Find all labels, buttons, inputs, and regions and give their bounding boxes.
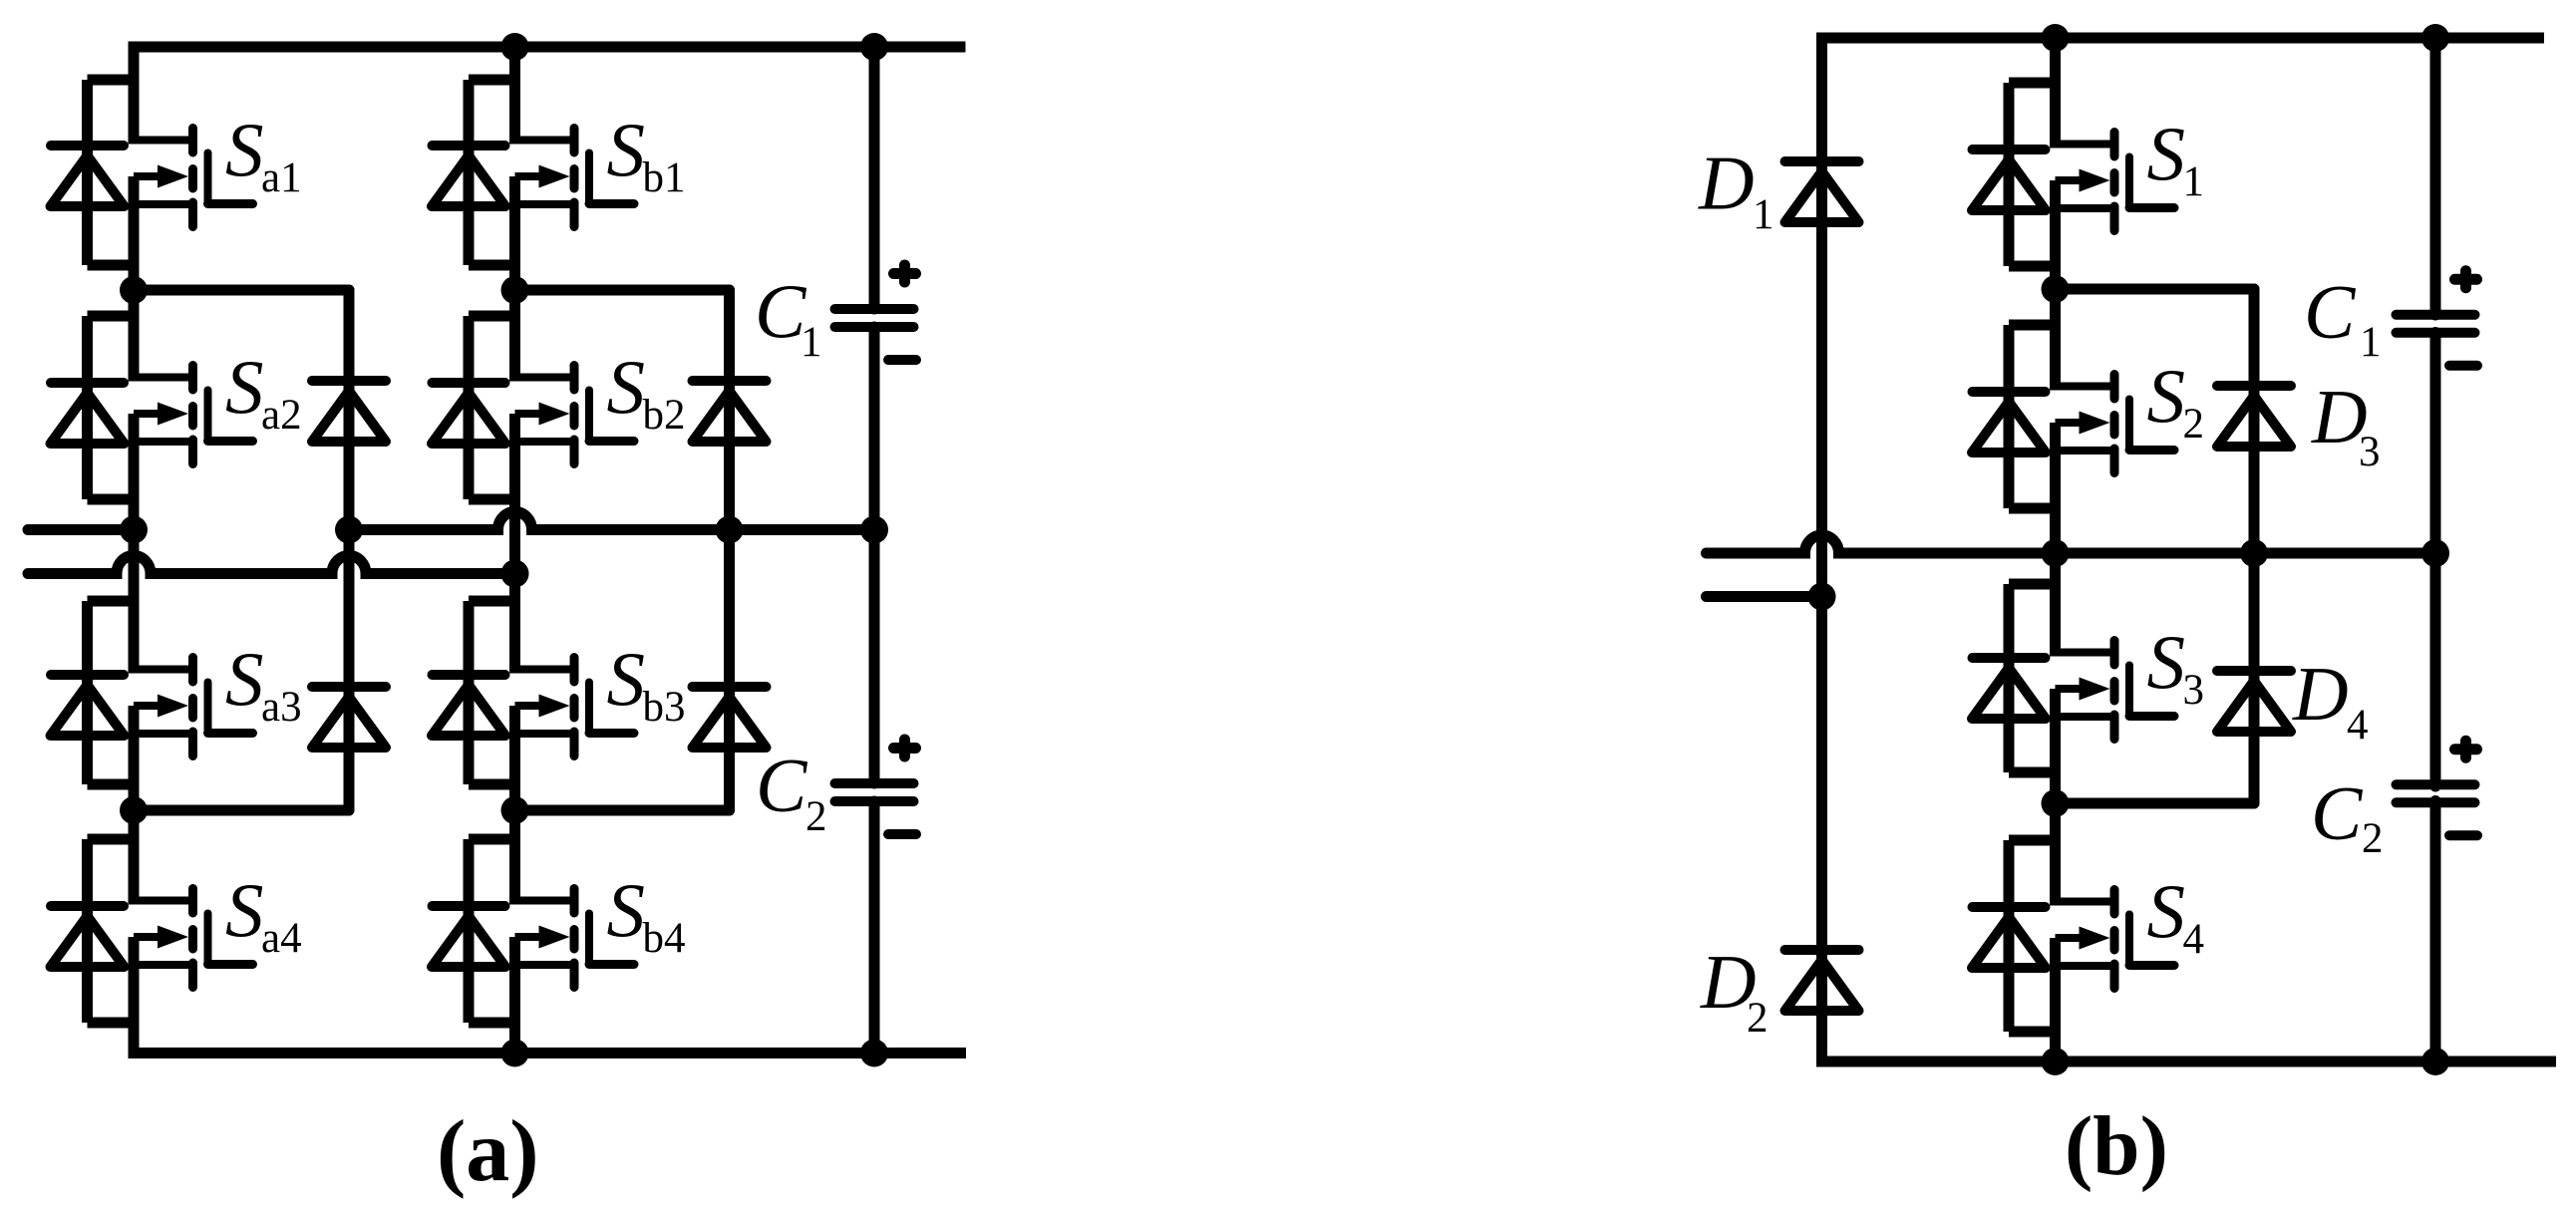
wire: positive DC bus (top rail, circuit a) [129, 42, 966, 53]
junction node: Sa3-Sa4 junction [120, 796, 148, 824]
svg-text:2: 2 [1747, 995, 1769, 1042]
transistor Sb4 (MOSFET with antiparallel body diode) [432, 839, 634, 1023]
svg-text:S: S [607, 344, 646, 430]
wire: clamp diode branch (b) [2249, 289, 2260, 803]
svg-text:S: S [607, 867, 646, 953]
junction node: bottom rail / capacitor leg (a) [860, 1040, 888, 1067]
capacitor C2 [835, 783, 914, 801]
wire: C2 bottom plate to DC bus [869, 801, 880, 1054]
svg-text:2: 2 [2362, 815, 2384, 862]
wire: neutral rail to capacitor midpoint (hops over leg b) [349, 512, 874, 530]
svg-text:2: 2 [2183, 401, 2205, 448]
diode D3 [2217, 386, 2291, 447]
polarity plus sign of C2 [894, 740, 916, 756]
transistor Sa1 (MOSFET with antiparallel body diode) [51, 80, 253, 265]
wire: input terminal 1 / neutral rail (b), hops over diode branch [1707, 535, 2436, 553]
svg-text:a2: a2 [261, 392, 302, 439]
transistor Sb3 (MOSFET with antiparallel body diode) [432, 601, 634, 784]
wire: drain lead of S2 [2050, 289, 2061, 391]
wire: source lead of S2 [2050, 423, 2061, 553]
transistor S4 (MOSFET with antiparallel body diode) [1972, 840, 2174, 1032]
wire: source lead of S1 [2050, 180, 2061, 289]
junction node: clamp branch a / neutral rail [335, 516, 363, 544]
transistor Sa3 (MOSFET with antiparallel body diode) [51, 601, 253, 784]
wire: drain lead of Sa1 [129, 47, 140, 145]
diode D2 [1785, 950, 1859, 1011]
svg-text:4: 4 [2183, 916, 2205, 963]
wire: source lead of Sb2 [509, 414, 520, 574]
capacitor C2 [2397, 784, 2475, 802]
svg-text:a1: a1 [261, 154, 302, 201]
svg-text:D: D [2292, 651, 2349, 737]
diode D4 [2217, 671, 2291, 732]
svg-text:D: D [1698, 141, 1755, 226]
transistor S3 (MOSFET with antiparallel body diode) [1972, 584, 2174, 772]
polarity plus sign of C1 [894, 265, 916, 282]
svg-text:b3: b3 [643, 684, 686, 731]
wire: node between S1 and S2 to clamp diode branch (b) [2056, 284, 2255, 295]
svg-text:1: 1 [2360, 319, 2382, 366]
svg-text:(a): (a) [437, 1103, 539, 1200]
wire: input diode branch (D1/D2 vertical) [1816, 38, 1827, 1061]
wire: source lead of S3 [2050, 689, 2061, 803]
junction node: S3-S4 junction [2042, 789, 2070, 817]
junction node: top rail / switch leg (b) [2042, 24, 2070, 52]
svg-text:S: S [607, 107, 646, 192]
svg-text:3: 3 [2359, 429, 2381, 475]
svg-text:a4: a4 [261, 915, 302, 962]
svg-text:2: 2 [805, 793, 827, 840]
wire: drain lead of Sa3 [129, 530, 140, 674]
junction node: top rail / capacitor leg (a) [860, 33, 888, 61]
wire: C1 bottom plate to C2 top plate [869, 327, 880, 783]
junction node: leg b midpoint / input terminal 2 [501, 560, 529, 588]
svg-text:S: S [225, 867, 264, 953]
svg-text:1: 1 [1753, 191, 1774, 238]
transistor Sa2 (MOSFET with antiparallel body diode) [51, 316, 253, 499]
capacitor C1 [2397, 315, 2475, 333]
wire: source lead of Sb4 [509, 937, 520, 1054]
svg-text:C: C [756, 743, 808, 828]
polarity plus sign of C2 [2455, 741, 2477, 757]
wire: drain lead of Sa4 [129, 810, 140, 905]
diode clamp diode upper leg b [693, 381, 767, 442]
wire: drain lead of Sa2 [129, 290, 140, 382]
junction node: clamp branch b / neutral rail [716, 516, 744, 544]
wire: node between Sa3 and Sa4 to clamp diode branch [134, 805, 349, 816]
junction node: capacitor midpoint (a) [860, 516, 888, 544]
svg-text:b4: b4 [643, 915, 686, 962]
polarity minus sign of C1 [888, 355, 916, 365]
wire: clamp diode branch of leg a [344, 290, 355, 810]
capacitor C1 [835, 309, 914, 327]
junction node: input terminal 2 / diode branch [1808, 583, 1836, 611]
polarity minus sign of C2 [2449, 830, 2477, 840]
diode clamp diode upper leg a [312, 381, 386, 442]
wire: drain lead of S3 [2050, 553, 2061, 657]
svg-text:S: S [225, 344, 264, 430]
wire: node between S3 and S4 to clamp diode branch (b) [2056, 798, 2255, 809]
wire: drain lead of Sb4 [509, 810, 520, 905]
junction node: top rail / leg b (a) [501, 33, 529, 61]
wire: source lead of Sa3 [129, 706, 140, 810]
wire: source lead of Sb3 [509, 706, 520, 810]
svg-text:S: S [2147, 353, 2186, 439]
polarity plus sign of C1 [2455, 271, 2477, 288]
wire: source lead of Sa2 [129, 414, 140, 530]
svg-text:S: S [2147, 619, 2186, 705]
transistor S1 (MOSFET with antiparallel body diode) [1972, 83, 2174, 266]
wire: source lead of Sa1 [129, 176, 140, 290]
wire: input terminal 2 to midpoint of leg b (hops over leg a and clamp branch) [28, 556, 515, 574]
wire: source lead of Sb1 [509, 176, 520, 290]
wire: C1 bottom plate to C2 top plate (b) [2430, 333, 2441, 787]
transistor Sb2 (MOSFET with antiparallel body diode) [432, 316, 634, 499]
wire: negative DC bus (bottom rail, circuit b) [1816, 1056, 2556, 1067]
transistor Sb1 (MOSFET with antiparallel body diode) [432, 80, 634, 265]
svg-text:(b): (b) [2065, 1099, 2168, 1193]
wire: node between Sa1 and Sa2 to clamp diode branch [134, 285, 349, 296]
svg-text:b2: b2 [643, 392, 686, 439]
transistor Sa4 (MOSFET with antiparallel body diode) [51, 839, 253, 1023]
wire: drain lead of S4 [2050, 803, 2061, 906]
wire: source lead of Sa4 [129, 937, 140, 1054]
wire: node between Sb3 and Sb4 to clamp diode branch [515, 805, 730, 816]
wire: node between Sb1 and Sb2 to clamp diode branch [515, 285, 730, 296]
junction node: Sb1-Sb2 junction [501, 276, 529, 304]
svg-text:S: S [2147, 868, 2186, 954]
junction node: Sb3-Sb4 junction [501, 796, 529, 824]
junction node: bottom rail / capacitor leg (b) [2421, 1048, 2449, 1075]
junction node: top rail / capacitor leg (b) [2421, 24, 2449, 52]
junction node: S1-S2 junction [2042, 275, 2070, 303]
svg-text:S: S [2147, 111, 2186, 196]
wire: input terminal 2 to diode branch (b) [1707, 591, 1822, 602]
svg-text:3: 3 [2183, 667, 2205, 714]
svg-text:S: S [225, 636, 264, 722]
svg-text:C: C [2311, 770, 2364, 856]
junction node: bottom rail / switch leg (b) [2042, 1048, 2070, 1075]
svg-text:1: 1 [2183, 158, 2205, 205]
junction node: bottom rail / leg b (a) [501, 1040, 529, 1067]
polarity minus sign of C1 [2449, 361, 2477, 371]
wire: positive DC bus (top rail, circuit b) [1816, 33, 2544, 44]
diode D1 [1785, 161, 1859, 222]
wire: drain lead of Sb2 [509, 290, 520, 382]
svg-text:C: C [2304, 269, 2357, 355]
svg-text:S: S [225, 107, 264, 192]
wire: clamp diode branch of leg b [724, 290, 735, 810]
junction node: leg a midpoint / input terminal 1 [120, 516, 148, 544]
junction node: Sa1-Sa2 junction [120, 276, 148, 304]
svg-text:b1: b1 [643, 154, 686, 201]
svg-text:a3: a3 [261, 684, 302, 731]
wire: C2 bottom plate to DC bus (b) [2430, 801, 2441, 1062]
diode clamp diode lower leg b [693, 687, 767, 748]
wire: drain lead of Sb3 [509, 574, 520, 674]
wire: DC bus to C1 top plate [869, 47, 880, 309]
wire: drain lead of S1 [2050, 38, 2061, 149]
wire: source lead of S4 [2050, 938, 2061, 1061]
wire: negative DC bus (bottom rail, circuit a) [129, 1048, 967, 1058]
svg-text:1: 1 [801, 319, 822, 366]
transistor S2 (MOSFET with antiparallel body diode) [1972, 325, 2174, 508]
junction node: switch leg midpoint (b) [2042, 539, 2070, 567]
junction node: capacitor midpoint (b) [2421, 539, 2449, 567]
diode clamp diode lower leg a [312, 687, 386, 748]
wire: DC bus to C1 top plate (b) [2430, 38, 2441, 315]
svg-text:4: 4 [2347, 702, 2369, 749]
wire: input terminal 1 to midpoint of leg a [28, 524, 134, 535]
wire: drain lead of Sb1 [509, 47, 520, 145]
svg-text:S: S [607, 636, 646, 722]
junction node: clamp branch / neutral rail (b) [2240, 539, 2268, 567]
polarity minus sign of C2 [888, 829, 916, 839]
